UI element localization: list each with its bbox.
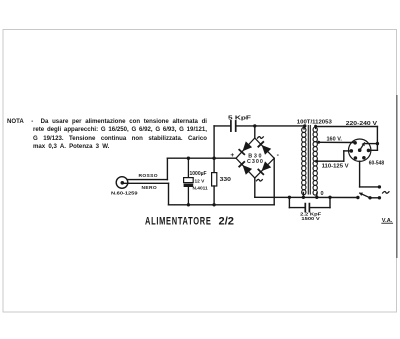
- wire to wiper region: [366, 143, 378, 145]
- wire cap2.2 right stub: [329, 197, 331, 207]
- svg-text:N.60-1259: N.60-1259: [111, 191, 138, 197]
- wiper arm: [360, 142, 365, 150]
- svg-text:100T/112053: 100T/112053: [297, 119, 332, 125]
- wire cap2.2 left stub: [288, 197, 290, 207]
- svg-text:C300: C300: [247, 159, 263, 165]
- wire secondary bottom lead: [302, 193, 304, 198]
- svg-text:1000µF: 1000µF: [190, 171, 207, 177]
- node mains lower terminal: [378, 196, 381, 199]
- wire ROSSO horizontal: [127, 179, 167, 181]
- node cap2.2 left: [288, 196, 291, 199]
- wire 5KpF to transformer top: [237, 125, 305, 127]
- diode D4 (- to ~bot): [262, 161, 272, 171]
- connector N.60-1259 (output plug): [116, 177, 128, 189]
- svg-text:-: -: [277, 152, 280, 159]
- node bridge top junction: [253, 124, 256, 127]
- node primary top terminal: [314, 125, 317, 128]
- wire wiper down: [359, 161, 361, 187]
- wire bridge - drop: [273, 158, 275, 205]
- svg-text:110-125 V: 110-125 V: [322, 164, 350, 170]
- node mains upper terminal: [378, 185, 381, 188]
- svg-text:5 KpF: 5 KpF: [228, 116, 252, 122]
- svg-text:+: +: [230, 152, 234, 159]
- svg-text:ALIMENTATORE: ALIMENTATORE: [145, 215, 212, 227]
- svg-text:60-548: 60-548: [369, 160, 384, 166]
- switch lever: [359, 193, 370, 198]
- NOTA text block: [7, 118, 207, 127]
- wire to bridge ~ top: [254, 126, 256, 138]
- node rail/+ junction: [212, 157, 215, 160]
- rotary selector 60-548: [349, 139, 371, 161]
- wire 220-240 corner down: [376, 127, 378, 151]
- node cap1000 top junction: [187, 157, 190, 160]
- svg-text:0: 0: [321, 191, 324, 197]
- switch contact right: [368, 196, 371, 199]
- capacitor C 1000uF 12V N.4011: [187, 158, 189, 177]
- wire ROSSO vertical to + line: [166, 158, 168, 179]
- node 220-240 branch: [376, 142, 379, 145]
- wire NERO vertical to - rail: [168, 183, 170, 205]
- transformer secondary winding: [302, 128, 306, 133]
- wire primary top lead: [315, 127, 317, 129]
- node secondary bottom: [302, 196, 305, 199]
- node cap1000 bottom junction: [187, 203, 190, 206]
- svg-text:2/2: 2/2: [219, 215, 235, 227]
- wire - rail: [169, 204, 275, 206]
- wire 160V tap: [317, 141, 320, 144]
- svg-text:1500 V: 1500 V: [301, 216, 320, 222]
- transformer primary winding: [313, 127, 317, 132]
- contact 220-240V: [367, 149, 371, 153]
- diode D3 (- to ~top): [262, 145, 272, 155]
- switch contact left: [356, 196, 359, 199]
- svg-text:N.4011: N.4011: [193, 185, 209, 191]
- wire bottom common rail: [255, 196, 358, 198]
- wire NERO horizontal: [124, 182, 169, 184]
- diode D1 (~top to +): [243, 141, 253, 151]
- svg-text:ROSSO: ROSSO: [139, 173, 158, 179]
- wire 110-125V tap: [315, 160, 318, 163]
- wire bridge ~bot drop: [254, 178, 256, 197]
- transformer core: [307, 126, 309, 195]
- svg-text:330: 330: [220, 177, 231, 183]
- node secondary top terminal: [303, 124, 306, 127]
- svg-text:220-240 V: 220-240 V: [346, 121, 378, 127]
- contact spare1: [354, 156, 358, 160]
- label ~ top: [257, 136, 264, 138]
- contact wiper center: [358, 148, 362, 152]
- svg-text:160 V.: 160 V.: [327, 136, 343, 142]
- wire + line (bridge + to output): [167, 157, 236, 159]
- svg-text:12 V: 12 V: [195, 178, 206, 184]
- wire left rail upper: [213, 126, 215, 173]
- label ~ bottom: [256, 179, 263, 181]
- wire to mains upper terminal: [360, 186, 380, 188]
- svg-text:NERO: NERO: [142, 185, 158, 191]
- wire to 5KpF left: [214, 125, 230, 127]
- wire primary bottom lead: [316, 193, 318, 197]
- contact 110-125V: [350, 149, 354, 153]
- diode D2 (~bot to +): [243, 165, 253, 175]
- label ~ mains: [382, 191, 389, 193]
- node cap2.2 right: [328, 196, 331, 199]
- contact 160V: [353, 141, 357, 145]
- contact spare2: [362, 156, 366, 160]
- node primary bottom: [315, 196, 318, 199]
- node resistor bottom junction: [212, 203, 215, 206]
- wire left rail lower: [213, 186, 215, 205]
- wire 220-240V tap: [316, 126, 378, 128]
- wire to right contact: [369, 149, 378, 151]
